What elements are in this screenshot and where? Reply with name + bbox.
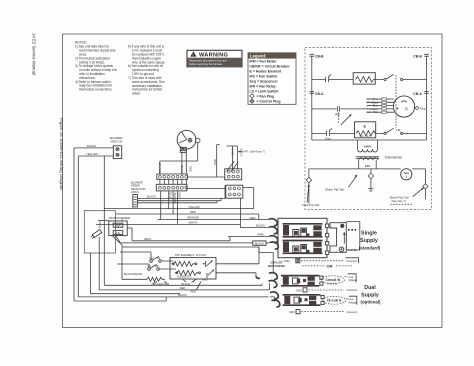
motor plug at bottom [180,147,186,152]
svg-text:Ground: Ground [347,259,358,263]
svg-text:Circuit B: Circuit B [325,278,340,282]
svg-text:CB-B: CB-B [315,54,324,58]
hook circuit A 2 [272,300,280,307]
svg-text:Transformer: Transformer [385,155,404,159]
svg-text:= Control Plug: = Control Plug [257,100,281,104]
links strip [133,195,138,207]
svg-text:BLACK: BLACK [240,149,243,157]
transformer box [109,221,127,236]
svg-text:Red Pig-Tail: Red Pig-Tail [303,203,320,207]
circuit A breaker [283,295,325,305]
svg-text:RED: RED [180,286,186,290]
svg-text:detail.: detail. [132,92,141,96]
svg-text:Disconnect all power to the un: Disconnect all power to the unit [189,58,227,62]
svg-text:TOP ELEMENT, 11.5 KW: TOP ELEMENT, 11.5 KW [175,253,207,257]
notes column 1 [75,41,117,92]
wire yellow long drop [104,156,262,285]
svg-text:(Seq 4-5): (Seq 4-5) [327,284,337,286]
svg-text:RED: RED [213,160,216,165]
wire from motor hump [160,143,198,174]
svg-text:IFR - (See Note 7): IFR - (See Note 7) [244,150,265,154]
svg-text:(optional): (optional) [361,299,382,304]
svg-text:C: C [405,107,408,111]
svg-text:Dual: Dual [364,285,376,291]
svg-text:= Fan Plug: = Fan Plug [257,95,275,99]
wires into contacts [117,252,151,268]
sequencer heater coil [122,277,165,281]
motor lead wires with plugs [367,99,394,112]
svg-text:WARNING: WARNING [199,52,228,58]
svg-text:CB-A: CB-A [413,92,422,96]
breaker box [278,218,327,257]
heater element E (top) [353,73,375,84]
svg-text:CB/KR = Circuit Breaker: CB/KR = Circuit Breaker [250,65,291,69]
blower switch [113,146,121,159]
hook circuit A 1 [270,292,278,299]
svg-text:BLACK: BLACK [87,144,96,148]
svg-text:LS = Limit Switch: LS = Limit Switch [250,90,279,94]
element feed wires [216,247,259,276]
svg-text:24V: 24V [365,164,370,168]
wire from lower plug right [243,188,254,209]
circuit B breaker [281,276,323,286]
OR divider [302,265,324,267]
svg-text:BREAKERS: BREAKERS [268,264,285,268]
wire black feed [240,227,269,229]
svg-text:YELLOW: YELLOW [86,152,98,156]
svg-text:IFM = Fan Motor: IFM = Fan Motor [250,60,278,64]
right rail wire [426,59,428,140]
svg-text:Seq: Seq [404,171,409,175]
breaker pole 2 (bottom unit) [283,241,323,254]
breaker contact on top wire [326,75,331,83]
wire loop from transformer [98,237,100,290]
svg-text:LINKS: LINKS [131,190,139,194]
limit switches in element box [207,261,214,275]
wire motor leads to plug strip [182,152,186,174]
limit switch contact (top) [384,78,386,80]
svg-text:Supply: Supply [361,292,379,298]
svg-text:!: ! [192,53,193,57]
assembly box [84,211,115,253]
schematic enclosure (dashed) [305,48,432,210]
wire to circuit B top [123,247,273,273]
svg-text:Supply: Supply [360,238,378,244]
control plug strip (lower) [156,184,187,191]
svg-text:Red: Red [373,110,378,114]
svg-text:IFR = Fan Relay: IFR = Fan Relay [250,85,276,89]
svg-text:IFS = Fan Switch: IFS = Fan Switch [250,75,278,79]
blower motor [177,130,196,149]
chassis ground [368,189,373,192]
fan switch IFS arrow [341,115,351,125]
wire to transformer top [121,219,123,221]
sequencer breaker contact [327,128,332,136]
hook wpb [270,236,278,243]
svg-text:-Plug: -Plug [419,106,426,110]
svg-text:ORANGE: ORANGE [158,163,161,174]
svg-text:IFM: IFM [401,99,407,103]
24V control wire [309,168,426,170]
black pig-tail drop [425,169,427,200]
fan plug strip (upper) [157,174,188,180]
svg-text:240V: 240V [364,144,372,148]
element box [170,258,216,279]
svg-text:BLACK: BLACK [147,195,156,199]
svg-text:Voltage: Voltage [348,300,357,304]
svg-text:IFS: IFS [335,112,340,116]
hook black [269,227,277,234]
legend fan plug symbol [250,94,255,99]
hook to circuit B top [256,276,260,278]
svg-text:RED: RED [250,216,256,220]
wire black riser [236,146,238,169]
svg-text:WPB: WPB [257,233,264,237]
right terminal lugs [325,224,328,227]
svg-text:Circuit A: Circuit A [327,299,342,303]
svg-text:RED: RED [191,290,197,294]
svg-text:BLACK/WHITE: BLACK/WHITE [124,272,142,276]
fan relay plug IFR [225,169,242,180]
circuit breaker CB-A left [310,92,315,94]
wire red to circuit B [99,283,269,290]
circuit B label oval [321,276,345,284]
red pig-tail connector [306,177,311,182]
label dual supply [361,285,382,304]
plug symbol [90,230,101,240]
lower circuit wire [312,132,427,134]
svg-text:GRD: GRD [284,259,290,263]
svg-text:240V: 240V [115,223,121,227]
svg-text:(See Note 7): (See Note 7) [392,200,406,203]
transformer 24V secondary [359,158,378,161]
svg-text:LIMIT: LIMIT [202,278,209,282]
breaker pole 1 (top unit) [283,224,323,237]
svg-text:LS: LS [396,128,400,132]
hook circuit B 2 [269,281,277,288]
svg-text:YELLOW: YELLOW [188,205,200,209]
link wires [137,199,225,203]
svg-text:BLACK: BLACK [256,224,265,228]
run capacitor [338,106,340,111]
svg-text:SWITCH: SWITCH [111,139,122,143]
svg-text:before servicing the furnace.: before servicing the furnace. [189,62,223,66]
supply lead dashes [348,229,356,231]
svg-text:WHITE: WHITE [230,149,233,157]
svg-text:GRD: GRD [289,310,295,314]
hook circuit B 1 [269,273,277,280]
svg-text:RED: RED [188,167,191,172]
white pig-tail drop + ground [370,169,372,189]
wire from lower plug bottom [239,198,241,224]
svg-text:14 E2 Service Manual: 14 E2 Service Manual [32,33,37,75]
svg-text:(standard): (standard) [359,245,381,250]
legend box [248,53,296,105]
relay contacts [227,161,239,172]
svg-text:Legend:: Legend: [250,53,266,58]
wire black boxed feed [120,242,270,244]
svg-text:E = Heater Element: E = Heater Element [250,70,283,74]
svg-text:Black Pig-Tail: Black Pig-Tail [390,195,409,199]
legend control plug symbol [250,99,255,104]
heater element E (lower) [355,122,376,138]
svg-text:Sup - 11.5: Sup - 11.5 [359,135,371,138]
left rail wire [311,59,313,140]
svg-text:Seq = Sequencer: Seq = Sequencer [250,80,279,84]
svg-text:Ground: Ground [347,288,358,292]
wire loop yellow drop [77,156,79,297]
wire red riser [217,145,220,178]
transformer secondary leads [112,235,123,247]
fan plug symbol right of motor [415,106,419,110]
svg-text:TRANSFORMER: TRANSFORMER [108,216,130,220]
wire strip to relay [187,176,224,178]
svg-text:Single: Single [361,230,377,236]
circuit breaker CB-B left [310,54,315,60]
svg-text:ORANGE: ORANGE [187,216,199,220]
motor run wire with capacitor [312,108,367,110]
heating element coil 2 [175,270,199,275]
page frame [63,34,443,328]
heating element coil 1 [172,261,196,266]
wire loop to supply [346,222,360,250]
strip drops to runs [161,191,178,225]
hook black2 [270,242,278,249]
hook red [269,219,277,226]
neutral/ground bar assembly [330,222,360,253]
svg-text:Ground: Ground [347,310,358,314]
limit switch LS [384,132,386,134]
bottom rail wire [312,139,427,141]
top heat circuit wire [312,79,427,81]
wire loop from assembly box [90,253,180,294]
warning box [187,50,242,67]
svg-text:BLACK: BLACK [255,241,264,245]
svg-text:BLACK: BLACK [180,166,183,175]
svg-text:CB-B: CB-B [413,54,422,58]
wire loop outer [74,148,166,301]
svg-text:OR: OR [327,264,333,269]
label single supply [359,230,381,250]
svg-text:Figure 16. E2EB-012 Wiring Dia: Figure 16. E2EB-012 Wiring Diagram [59,118,64,191]
circuit A label oval [322,296,346,304]
svg-text:PLUG: PLUG [98,222,101,229]
svg-text:thermostat connections.: thermostat connections. [79,88,112,92]
wire red feed [259,219,269,221]
red pig-tail drop [308,169,310,204]
sequencer coil Seq 1 [401,169,412,180]
fan motor IFM [393,96,414,117]
strip jumpers [160,180,186,185]
svg-text:White Pig-Tail: White Pig-Tail [325,187,344,191]
wire white riser [227,146,238,169]
svg-text:GRD: GRD [296,288,302,292]
wire wpb feed [228,236,270,238]
wire black to circuit A [78,297,274,302]
relay lower plug [226,185,243,198]
wire into lower plug [187,187,226,189]
svg-text:CB-A: CB-A [315,92,324,96]
notes column 2 [128,45,166,96]
svg-text:ELEMENTS: ELEMENTS [177,275,191,279]
svg-text:24V: 24V [116,231,121,235]
svg-text:RED: RED [190,210,196,214]
